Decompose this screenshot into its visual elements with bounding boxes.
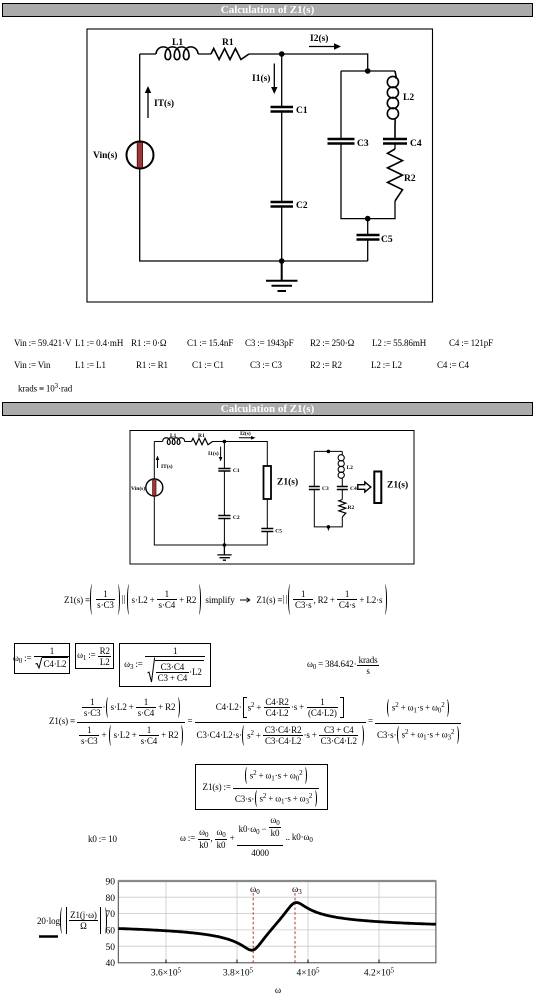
svg-text:I1(s): I1(s) <box>208 450 219 457</box>
svg-text:L1: L1 <box>172 38 183 48</box>
svg-text:50: 50 <box>106 943 116 953</box>
svg-text:R1: R1 <box>198 433 205 439</box>
svg-text:C4: C4 <box>410 139 422 149</box>
svg-text:I2(s): I2(s) <box>310 33 328 44</box>
svg-text:Vin(s): Vin(s) <box>93 150 117 161</box>
svg-text:I1(s): I1(s) <box>252 73 270 84</box>
svg-text:Z1(s): Z1(s) <box>387 480 408 491</box>
svg-text:R2: R2 <box>404 174 416 184</box>
svg-text:C5: C5 <box>381 235 393 245</box>
svg-text:ω3: ω3 <box>292 885 302 896</box>
svg-text:3.8×105: 3.8×105 <box>223 967 254 979</box>
svg-text:L1: L1 <box>170 433 177 439</box>
svg-text:C2: C2 <box>233 515 240 521</box>
svg-text:IT(s): IT(s) <box>161 463 173 470</box>
svg-text:C3: C3 <box>322 486 329 492</box>
svg-text:C5: C5 <box>275 529 282 535</box>
svg-text:C1: C1 <box>296 106 308 116</box>
svg-text:C1: C1 <box>233 468 240 474</box>
svg-text:ω0: ω0 <box>250 885 260 896</box>
svg-text:L2: L2 <box>403 93 414 103</box>
svg-text:L2: L2 <box>347 465 354 471</box>
svg-text:ω: ω <box>275 986 281 996</box>
svg-text:R2: R2 <box>348 505 355 511</box>
svg-text:R1: R1 <box>222 38 234 48</box>
svg-text:C2: C2 <box>296 201 308 211</box>
svg-text:4.2×105: 4.2×105 <box>364 967 395 979</box>
svg-text:40: 40 <box>106 959 116 969</box>
svg-text:Z1(s): Z1(s) <box>277 477 298 488</box>
svg-text:IT(s): IT(s) <box>154 98 174 109</box>
svg-text:3.6×105: 3.6×105 <box>151 967 182 979</box>
svg-text:90: 90 <box>106 878 116 888</box>
svg-text:Vin(s): Vin(s) <box>131 485 145 492</box>
svg-text:80: 80 <box>106 894 116 904</box>
svg-text:4×105: 4×105 <box>296 967 320 979</box>
svg-text:C3: C3 <box>357 139 369 149</box>
svg-text:I2(s): I2(s) <box>240 430 251 437</box>
svg-text:C4: C4 <box>350 486 357 492</box>
